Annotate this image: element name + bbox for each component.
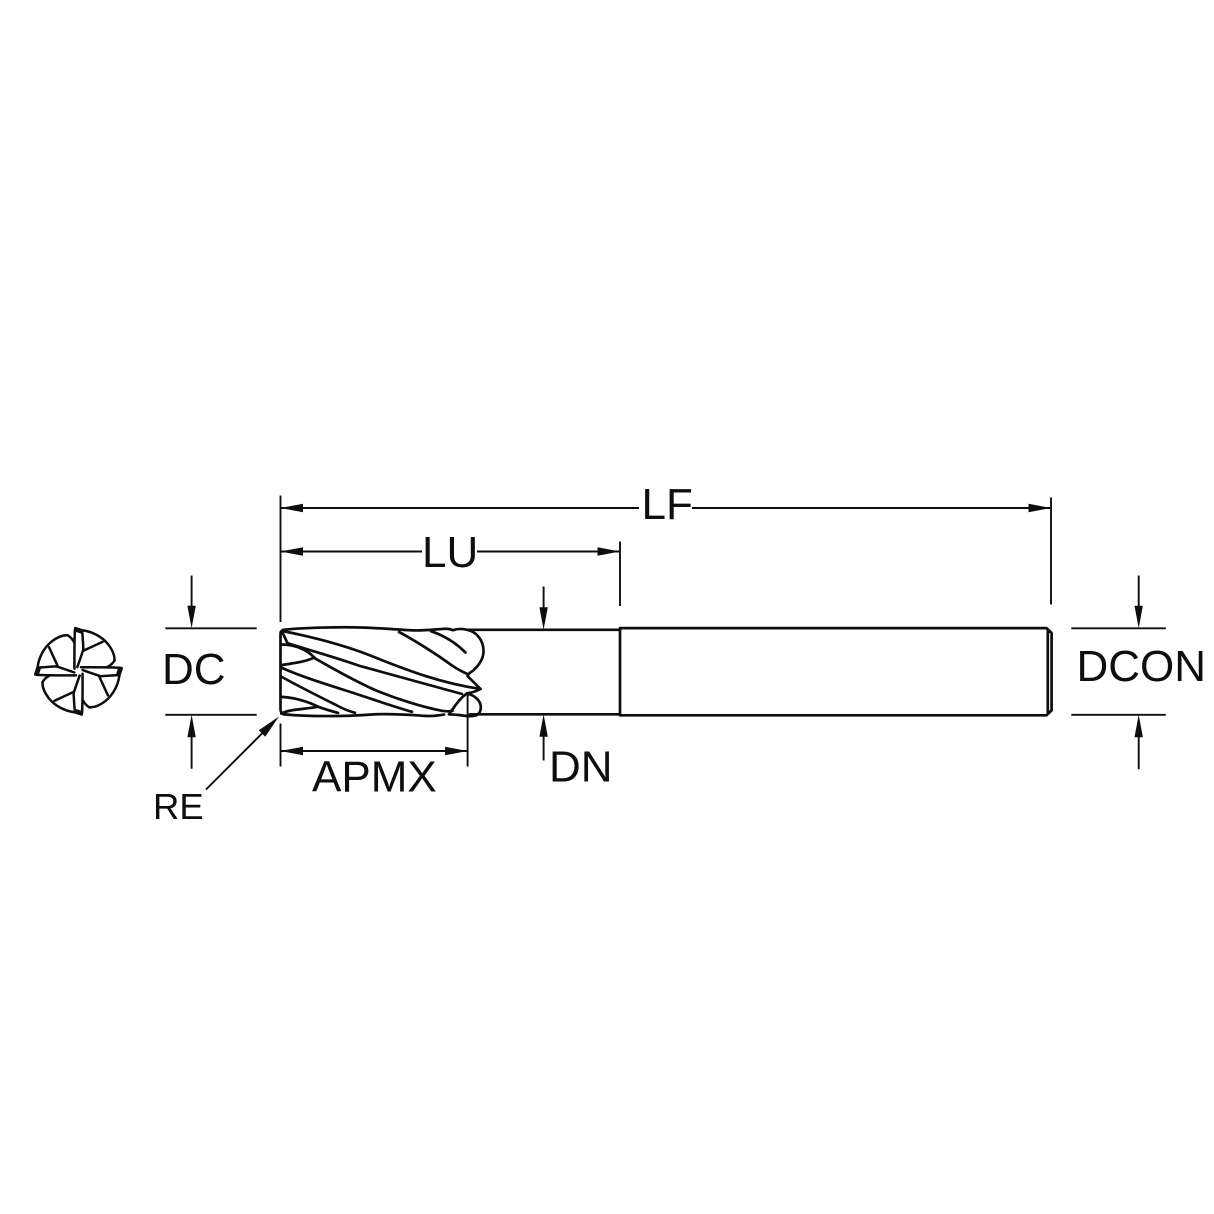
diag band lower <box>288 643 463 694</box>
diag from leaf tip <box>314 658 452 711</box>
DCON ext lines <box>1071 628 1166 715</box>
DC bottom <box>187 715 195 738</box>
tip wedge <box>282 632 288 644</box>
DN bottom <box>539 714 547 737</box>
DC ext lines <box>165 628 256 715</box>
LF extension left <box>280 496 282 623</box>
DN top <box>539 607 547 630</box>
APMX right <box>445 747 468 755</box>
top-right line G <box>431 631 466 652</box>
LU right <box>598 547 621 555</box>
RE arrow <box>259 717 279 737</box>
APMX ext left <box>280 724 282 767</box>
upper leaf <box>281 645 314 666</box>
svg-text:LF: LF <box>642 480 693 529</box>
DC arrows lines <box>191 576 193 769</box>
svg-text:DC: DC <box>162 645 226 694</box>
svg-text:DN: DN <box>549 743 613 792</box>
top-right line F <box>399 632 468 674</box>
DC top <box>187 606 195 629</box>
DN arrow lines <box>543 587 545 761</box>
LU line <box>281 551 621 553</box>
end mill end view <box>35 628 122 715</box>
flute blade 1 (top-right) <box>74 628 114 669</box>
svg-text:DCON: DCON <box>1077 642 1207 691</box>
tip face <box>281 631 285 714</box>
APMX line <box>281 750 468 752</box>
LF line <box>281 507 1052 509</box>
svg-text:LU: LU <box>422 528 478 577</box>
diag band upper <box>283 631 481 689</box>
RE leader <box>206 733 263 790</box>
LF right <box>1029 504 1052 512</box>
flute blade 2 (bottom-right) <box>81 667 122 707</box>
DCON bottom <box>1135 715 1143 738</box>
APMX left <box>281 747 304 755</box>
side view <box>281 627 1052 716</box>
dimensions <box>165 496 1166 790</box>
neck <box>468 630 620 715</box>
LU extension right <box>619 542 621 607</box>
DCON arrow lines <box>1138 576 1140 770</box>
shank <box>620 628 1052 715</box>
LF extension right <box>1050 498 1052 605</box>
APMX ext right <box>467 694 469 767</box>
LF left <box>281 504 304 512</box>
top edge flutes <box>283 627 453 630</box>
upper petal <box>453 629 484 693</box>
bottom edge flutes <box>284 714 444 716</box>
svg-text:APMX: APMX <box>312 753 437 802</box>
lower leaf <box>281 697 338 714</box>
lower-left diag E <box>281 677 355 713</box>
flute blade 4 (top-left) <box>35 635 76 675</box>
lower-left diag D <box>281 668 412 712</box>
DCON top <box>1135 606 1143 629</box>
flute blade 3 (bottom-left) <box>42 674 82 715</box>
LU left <box>281 547 304 555</box>
lower petal <box>449 694 481 717</box>
svg-text:RE: RE <box>153 786 204 827</box>
